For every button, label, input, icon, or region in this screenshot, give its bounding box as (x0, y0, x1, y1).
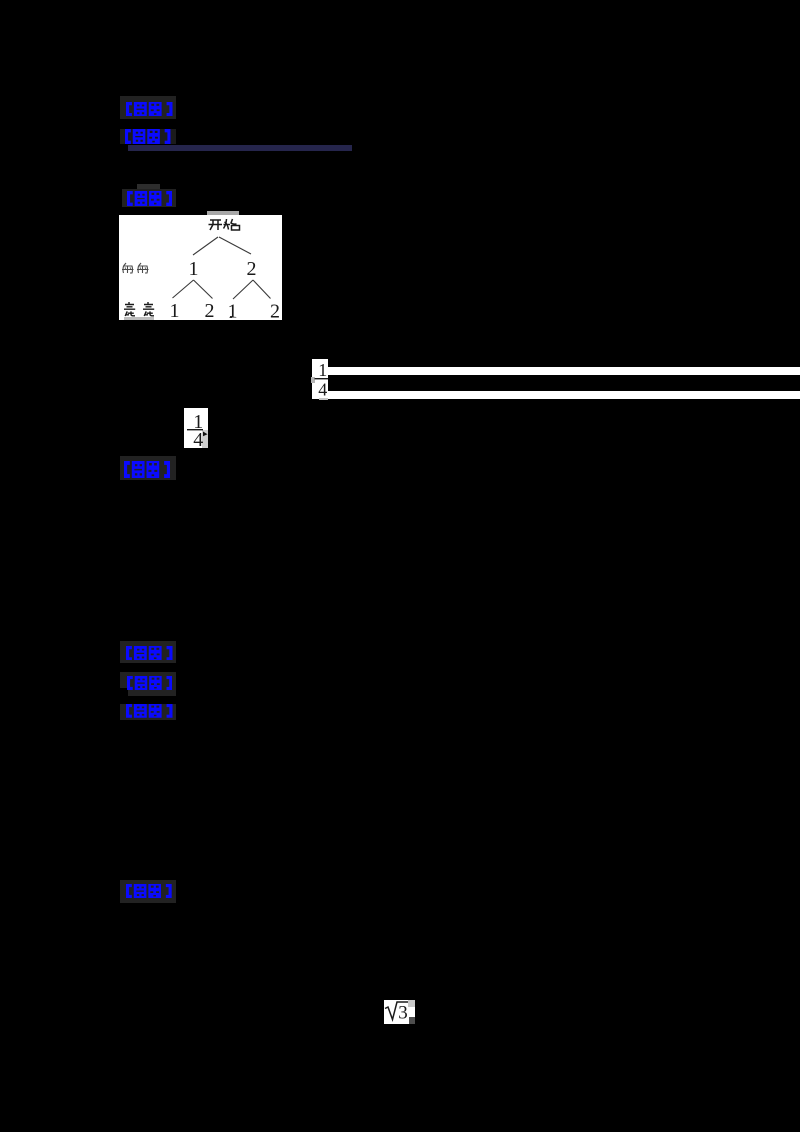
svg-text:2: 2 (247, 258, 257, 280)
svg-text:4: 4 (318, 380, 327, 400)
svg-text:1: 1 (189, 258, 199, 280)
svg-text:3: 3 (398, 1003, 408, 1024)
svg-text:4: 4 (193, 429, 203, 448)
svg-text:2: 2 (205, 300, 215, 320)
svg-text:1: 1 (318, 360, 327, 380)
svg-text:2: 2 (270, 301, 280, 321)
svg-text:1: 1 (228, 301, 238, 321)
svg-text:1: 1 (170, 300, 180, 320)
